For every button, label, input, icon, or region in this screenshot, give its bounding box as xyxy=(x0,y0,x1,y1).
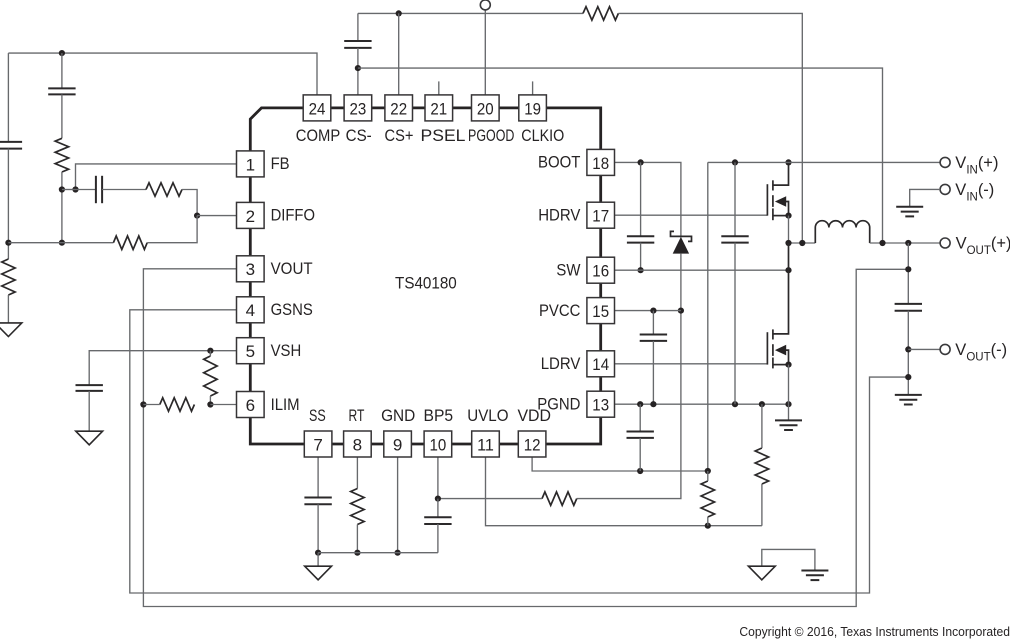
wire comp C1 to R1 xyxy=(61,94,63,138)
wire ground bus xyxy=(318,552,438,554)
ground SS AGND xyxy=(317,553,319,567)
capacitor comp C1 (x62 column) xyxy=(61,53,63,88)
pin 12 VDD xyxy=(518,431,546,457)
terminal VOUT- xyxy=(940,344,950,354)
wire parallel R to DIFFO node xyxy=(147,216,197,243)
pin 11 UVLO xyxy=(472,431,500,457)
node VDD-VIN junction xyxy=(705,468,711,474)
ground AGND comp xyxy=(0,323,22,337)
wire output cap column upper xyxy=(907,243,909,304)
node UVLO divider xyxy=(705,523,711,529)
wire BP5 pin 10 stub xyxy=(437,457,439,499)
capacitor output C xyxy=(895,303,922,305)
transistor Q1 high-side NFET xyxy=(766,184,768,215)
capacitor input C xyxy=(734,162,736,236)
pin 3 VOUT xyxy=(237,256,265,282)
wire top rail to SW node xyxy=(618,13,802,243)
pin 7 SS xyxy=(304,431,332,457)
wire GND pin 9 stub xyxy=(397,457,399,553)
wire VDD pin 12 xyxy=(532,457,708,471)
resistor CS+ sense (horizontal top) xyxy=(583,7,618,20)
resistor RT (vertical) xyxy=(351,489,364,525)
resistor comp R-gnd (far left vertical) xyxy=(2,259,15,295)
wire pin 22 stub xyxy=(398,13,400,95)
node SW-source junction xyxy=(785,240,791,246)
wire COMP top rail xyxy=(8,53,317,95)
ground VIN- earth xyxy=(896,206,923,208)
node CS- junction xyxy=(355,65,361,71)
wire inductor to VOUT+ xyxy=(870,242,941,244)
node comp lower junction xyxy=(59,240,65,246)
ground AGND VSH xyxy=(76,431,103,445)
terminal PGOOD xyxy=(484,9,486,95)
pin 18 BOOT xyxy=(587,149,615,175)
node VOUT+ cap junction xyxy=(905,240,911,246)
capacitor BP5 C xyxy=(437,499,439,518)
node VIN input-cap xyxy=(732,159,738,165)
node diode-PVCC junction xyxy=(678,308,684,314)
node PGND uvlo-res xyxy=(759,401,765,407)
pin 20 PGOOD xyxy=(472,95,500,121)
pin 14 LDRV xyxy=(587,351,615,377)
pin 6 ILIM xyxy=(237,392,265,418)
wire VIN rail xyxy=(708,161,941,163)
node CS+ pin22 junction xyxy=(396,10,402,16)
node ILIM to VOUT route xyxy=(140,401,146,407)
node VSH-resistor junction xyxy=(207,348,213,354)
pin 19 CLKIO xyxy=(519,95,547,121)
wire Q2 source to PGND xyxy=(788,365,790,405)
svg-text:Copyright © 2016, Texas Instru: Copyright © 2016, Texas Instruments Inco… xyxy=(739,624,1010,639)
capacitor FB series C xyxy=(95,176,97,203)
pin 23 CS- xyxy=(344,95,372,121)
pin 5 VSH xyxy=(237,338,265,364)
pin 17 HDRV xyxy=(587,202,615,228)
node PGND cap1 xyxy=(637,401,643,407)
resistor ILIM sense (horizontal) xyxy=(160,398,195,411)
node SS ground xyxy=(315,550,321,556)
capacitor comp C-hf (far left) xyxy=(0,141,22,143)
wire ILIM resistor left link xyxy=(143,404,159,406)
wire FB pin 1 to divider xyxy=(76,164,237,190)
ground output earth xyxy=(895,394,922,396)
capacitor VSH C xyxy=(76,384,103,386)
pin 13 PGND xyxy=(587,391,615,417)
wire VSH pin 5 xyxy=(89,351,236,385)
wire BOOT pin 18 xyxy=(615,162,681,237)
resistor BP5 series (horizontal) xyxy=(542,492,577,505)
node SW-inductor left xyxy=(799,240,805,246)
terminal VOUT+ xyxy=(940,238,950,248)
wire SW pin 16 xyxy=(615,269,789,271)
wire series R to DIFFO node xyxy=(182,190,197,216)
wire VIN to VDD column xyxy=(707,162,709,471)
capacitor VDD bypass xyxy=(639,404,641,431)
node bootcap-SW xyxy=(638,267,644,273)
wire CS+ top rail xyxy=(358,12,583,14)
wire UVLO pin 11 xyxy=(486,457,762,526)
node VOUT sense tap xyxy=(905,266,911,272)
capacitor SS C xyxy=(304,497,331,499)
wire lower parallel branch xyxy=(8,242,113,244)
pin 22 CS+ xyxy=(385,95,413,121)
wire DIFFO to pin 2 xyxy=(197,215,236,217)
capacitor boot C xyxy=(640,162,642,236)
wire SW node line xyxy=(789,242,816,244)
node PGND mosfet source xyxy=(785,401,791,407)
wire PVCC pin 15 xyxy=(615,310,681,312)
node Q1 source-body xyxy=(785,213,791,219)
terminal VIN+ xyxy=(940,157,950,167)
wire grounds tie xyxy=(762,549,815,570)
capacitor PVCC bypass xyxy=(652,311,654,335)
wire series C to R xyxy=(102,189,146,191)
node BP5 xyxy=(435,496,441,502)
terminal VIN- xyxy=(940,184,950,194)
pin 15 PVCC xyxy=(587,298,615,324)
pin 21 PSEL xyxy=(425,95,453,121)
op-amp U1 TS40180 body outline xyxy=(250,108,600,444)
wire ILIM pin 6 xyxy=(210,404,236,406)
wire pin 21 no-connect stub xyxy=(438,81,440,95)
wire to analog ground xyxy=(7,295,9,323)
wire LDRV pin 14 xyxy=(615,363,768,365)
wire PGND pin 13 xyxy=(615,403,789,405)
node comp lower-branch left xyxy=(5,240,11,246)
wire Q1 source to SW node xyxy=(788,216,790,243)
wire HDRV pin 17 xyxy=(615,214,768,216)
wire BP5 rail left xyxy=(438,498,542,500)
resistor FB parallel R (horizontal) xyxy=(113,236,147,249)
pin 9 GND xyxy=(384,431,412,457)
resistor VSH-ILIM (vertical) xyxy=(204,356,217,396)
node VOUT- tap xyxy=(905,346,911,352)
pin 24 COMP xyxy=(303,95,331,121)
wire output cap column lower xyxy=(907,311,909,395)
wire pin 19 no-connect stub xyxy=(532,81,534,95)
resistor UVLO bottom (vertical) xyxy=(755,448,768,484)
node Q2 source-body xyxy=(785,362,791,368)
node RT ground xyxy=(354,550,360,556)
node SW pin line end xyxy=(785,267,791,273)
ground PGND tie earth xyxy=(801,570,828,572)
node GND ground xyxy=(395,550,401,556)
resistor comp R1 (vertical) xyxy=(55,138,68,172)
node comp-FB junction xyxy=(59,186,65,192)
transistor Q2 low-side NFET xyxy=(766,332,768,364)
wire RT to gnd node xyxy=(356,525,358,553)
node FB divider xyxy=(72,186,78,192)
pin 1 FB xyxy=(237,151,265,177)
capacitor CS- coupling xyxy=(357,13,359,41)
node ILIM xyxy=(207,401,213,407)
wire comp R1 to FB node xyxy=(61,172,63,243)
node Q1 drain at VIN xyxy=(785,159,791,165)
node VDD cap junction xyxy=(637,468,643,474)
wire far-left column upper xyxy=(7,53,9,142)
wire far-left column mid xyxy=(7,149,9,259)
diode boot schottky D1 xyxy=(671,231,692,241)
wire BP5 cap to gnd bus xyxy=(437,524,439,553)
wire pin 23 stub xyxy=(357,48,359,95)
pin 2 DIFFO xyxy=(237,202,265,228)
ground AGND tie triangle xyxy=(748,566,775,580)
wire GSNS pin 4 sense route xyxy=(130,310,909,593)
wire SS pin 7 stub xyxy=(317,457,319,498)
pin 4 GSNS xyxy=(237,297,265,323)
pin 10 BP5 xyxy=(424,431,452,457)
wire VOUT- terminal link xyxy=(908,348,940,350)
node PVCC-cap junction xyxy=(650,308,656,314)
node PGND input-cap xyxy=(732,401,738,407)
wire VOUT pin 3 sense route xyxy=(143,269,908,607)
resistor UVLO top (vertical) xyxy=(701,481,714,517)
node inductor-CS- junction xyxy=(879,240,885,246)
inductor L1 xyxy=(815,221,869,243)
wire VIN- to ground xyxy=(910,189,941,206)
resistor FB series R (horizontal) xyxy=(146,183,182,196)
wire SS cap to gnd node xyxy=(317,504,319,552)
node DIFFO xyxy=(194,213,200,219)
pin 8 RT xyxy=(344,431,372,457)
wire VSH cap to ground xyxy=(88,391,90,431)
wire CS- sense rail xyxy=(358,68,883,243)
ground PGND earth xyxy=(788,404,790,420)
node COMP-junction xyxy=(59,50,65,56)
wire FB node link xyxy=(62,189,76,191)
pin 16 SW xyxy=(587,257,615,283)
node GSNS tap xyxy=(905,374,911,380)
wire RT pin 8 stub xyxy=(356,457,358,489)
node PGND cap2 xyxy=(650,401,656,407)
node BOOT-bootcap xyxy=(638,159,644,165)
wire diode anode down xyxy=(577,254,681,499)
wire FB series branch xyxy=(76,189,96,191)
